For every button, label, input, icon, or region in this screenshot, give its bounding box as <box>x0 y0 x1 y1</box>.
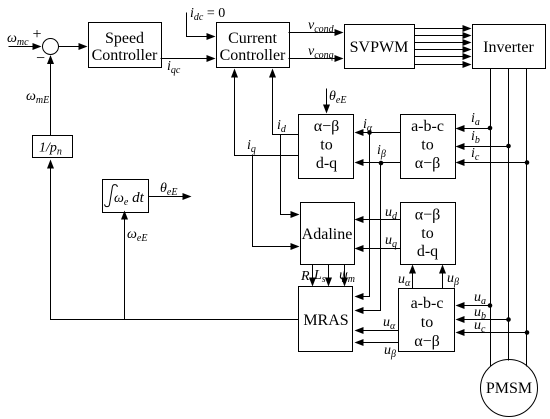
junction: i_α tap <box>367 130 372 135</box>
block: PMSM motor <box>481 360 538 417</box>
svg-text:Controller: Controller <box>220 47 286 64</box>
svg-text:MRAS: MRAS <box>303 312 348 329</box>
svg-text:to: to <box>421 225 433 242</box>
svg-text:d-q: d-q <box>417 243 438 260</box>
junction: i_c tap <box>525 160 530 165</box>
wire: summing junction to Speed Controller <box>59 46 87 48</box>
wire: phase a line from Inverter to PMSM <box>490 69 492 367</box>
wire: u_c sense into a-b-c block <box>457 332 527 334</box>
svg-text:SVPWM: SVPWM <box>350 39 409 56</box>
wire: i_c sense into a-b-c block <box>457 162 527 164</box>
svg-text:Controller: Controller <box>92 47 158 64</box>
block: α-β to d-q (voltages) <box>401 203 456 265</box>
wire: L_s output Adaline to MRAS <box>328 265 330 286</box>
junction: u_b tap <box>506 317 511 322</box>
wire: i_q branch down to Adaline <box>253 155 299 247</box>
svg-text:to: to <box>421 137 433 154</box>
block: Adaline <box>301 203 355 265</box>
wire: u_b sense into a-b-c block <box>457 319 509 321</box>
wire: ω_eE branch up to integrator <box>124 212 126 320</box>
block: 1/p_n <box>33 136 73 158</box>
wire: i_q from d-q block up to Current Controller <box>235 70 299 156</box>
wire: u_q from α-β/d-q (voltages) to Adaline <box>356 248 401 250</box>
svg-text:PMSM: PMSM <box>486 380 532 397</box>
wire: v_conq from Current Controller to SVPWM <box>289 58 343 60</box>
svg-text:α−β: α−β <box>415 155 441 172</box>
block: MRAS <box>299 287 353 352</box>
svg-text:to: to <box>421 314 433 331</box>
node: summing junction <box>43 39 59 55</box>
wire: i_α from a-b-c to α-β/d-q block <box>356 132 401 134</box>
wire: ω_mc input to summing junction <box>9 46 41 48</box>
wire: ψ_m output Adaline to MRAS <box>344 265 346 286</box>
svg-text:−: − <box>36 50 45 67</box>
wire: i_qc from Speed Controller to Current Controller <box>161 58 215 60</box>
junction: i_b tap <box>506 144 511 149</box>
wire: PWM gate signal 1 <box>415 28 471 30</box>
svg-text:α−β: α−β <box>314 118 340 135</box>
svg-text:d-q: d-q <box>316 155 337 172</box>
wire: phase c line from Inverter to PMSM <box>526 69 528 367</box>
block: a-b-c to α-β (currents) <box>401 115 456 179</box>
svg-text:Current: Current <box>228 30 277 47</box>
wire: i_d from d-q block up to Current Controller <box>273 70 299 135</box>
svg-text:ωe dt: ωe dt <box>114 190 145 208</box>
wire: PWM gate signal 5 <box>415 56 471 58</box>
junction: i_a tap <box>488 126 493 131</box>
wire: ω_mE from 1/p_n to summing junction <box>50 56 52 136</box>
wire: θ_eE output from integrator <box>149 196 191 198</box>
wire: u_α from a-b-c (voltages) to MRAS <box>356 330 399 332</box>
block: Inverter <box>473 25 546 69</box>
wire: R output Adaline to MRAS <box>312 265 314 286</box>
svg-text:α−β: α−β <box>414 333 440 350</box>
wire: ω_eE feedback from MRAS to 1/p_n <box>51 161 299 320</box>
wire: i_α branch down into MRAS <box>356 133 370 297</box>
wire: v_cond from Current Controller to SVPWM <box>289 32 343 34</box>
junction: u_a tap <box>488 303 493 308</box>
wire: phase b line from Inverter to PMSM <box>508 69 510 361</box>
wire: i_dc input to Current Controller <box>187 13 215 37</box>
svg-text:R: R <box>300 269 310 284</box>
wire: PWM gate signal 2 <box>415 35 471 37</box>
junction: u_c tap <box>525 330 530 335</box>
wire: PWM gate signal 3 <box>415 42 471 44</box>
block: Current Controller <box>217 23 290 68</box>
wire: i_a sense into a-b-c block <box>457 128 491 130</box>
wire: i_β branch down into MRAS <box>356 163 381 311</box>
wire: i_b sense into a-b-c block <box>457 146 509 148</box>
block: α-β to d-q (currents) <box>299 115 354 179</box>
svg-text:α−β: α−β <box>415 207 441 224</box>
svg-text:Inverter: Inverter <box>483 39 534 56</box>
wire: u_β from a-b-c (voltages) to MRAS <box>356 342 399 344</box>
svg-text:Adaline: Adaline <box>302 226 353 243</box>
junction: i_β tap <box>379 161 384 166</box>
block: SVPWM <box>345 25 415 69</box>
svg-text:a-b-c: a-b-c <box>411 295 444 312</box>
svg-text:to: to <box>320 137 332 154</box>
wire: u_d from α-β/d-q (voltages) to Adaline <box>356 219 401 221</box>
wire: u_β from a-b-c up to α-β/d-q (voltages) <box>442 266 444 289</box>
wire: PWM gate signal 6 <box>415 64 471 66</box>
wire: u_a sense into a-b-c block <box>457 305 491 307</box>
wire: i_β from a-b-c to α-β/d-q block <box>356 162 401 164</box>
svg-text:Speed: Speed <box>105 30 144 47</box>
wire: u_α from a-b-c up to α-β/d-q (voltages) <box>412 266 414 289</box>
wire: θ_eE into α-β/d-q block <box>326 89 328 113</box>
svg-text:a-b-c: a-b-c <box>411 118 444 135</box>
block: Speed Controller <box>89 23 162 68</box>
wire: PWM gate signal 4 <box>415 49 471 51</box>
wire: i_d branch down to Adaline <box>281 135 299 215</box>
svg-text:+: + <box>33 26 42 43</box>
block: a-b-c to α-β (voltages) <box>399 289 455 352</box>
block: integrator ∫ω_e dt <box>103 180 149 213</box>
